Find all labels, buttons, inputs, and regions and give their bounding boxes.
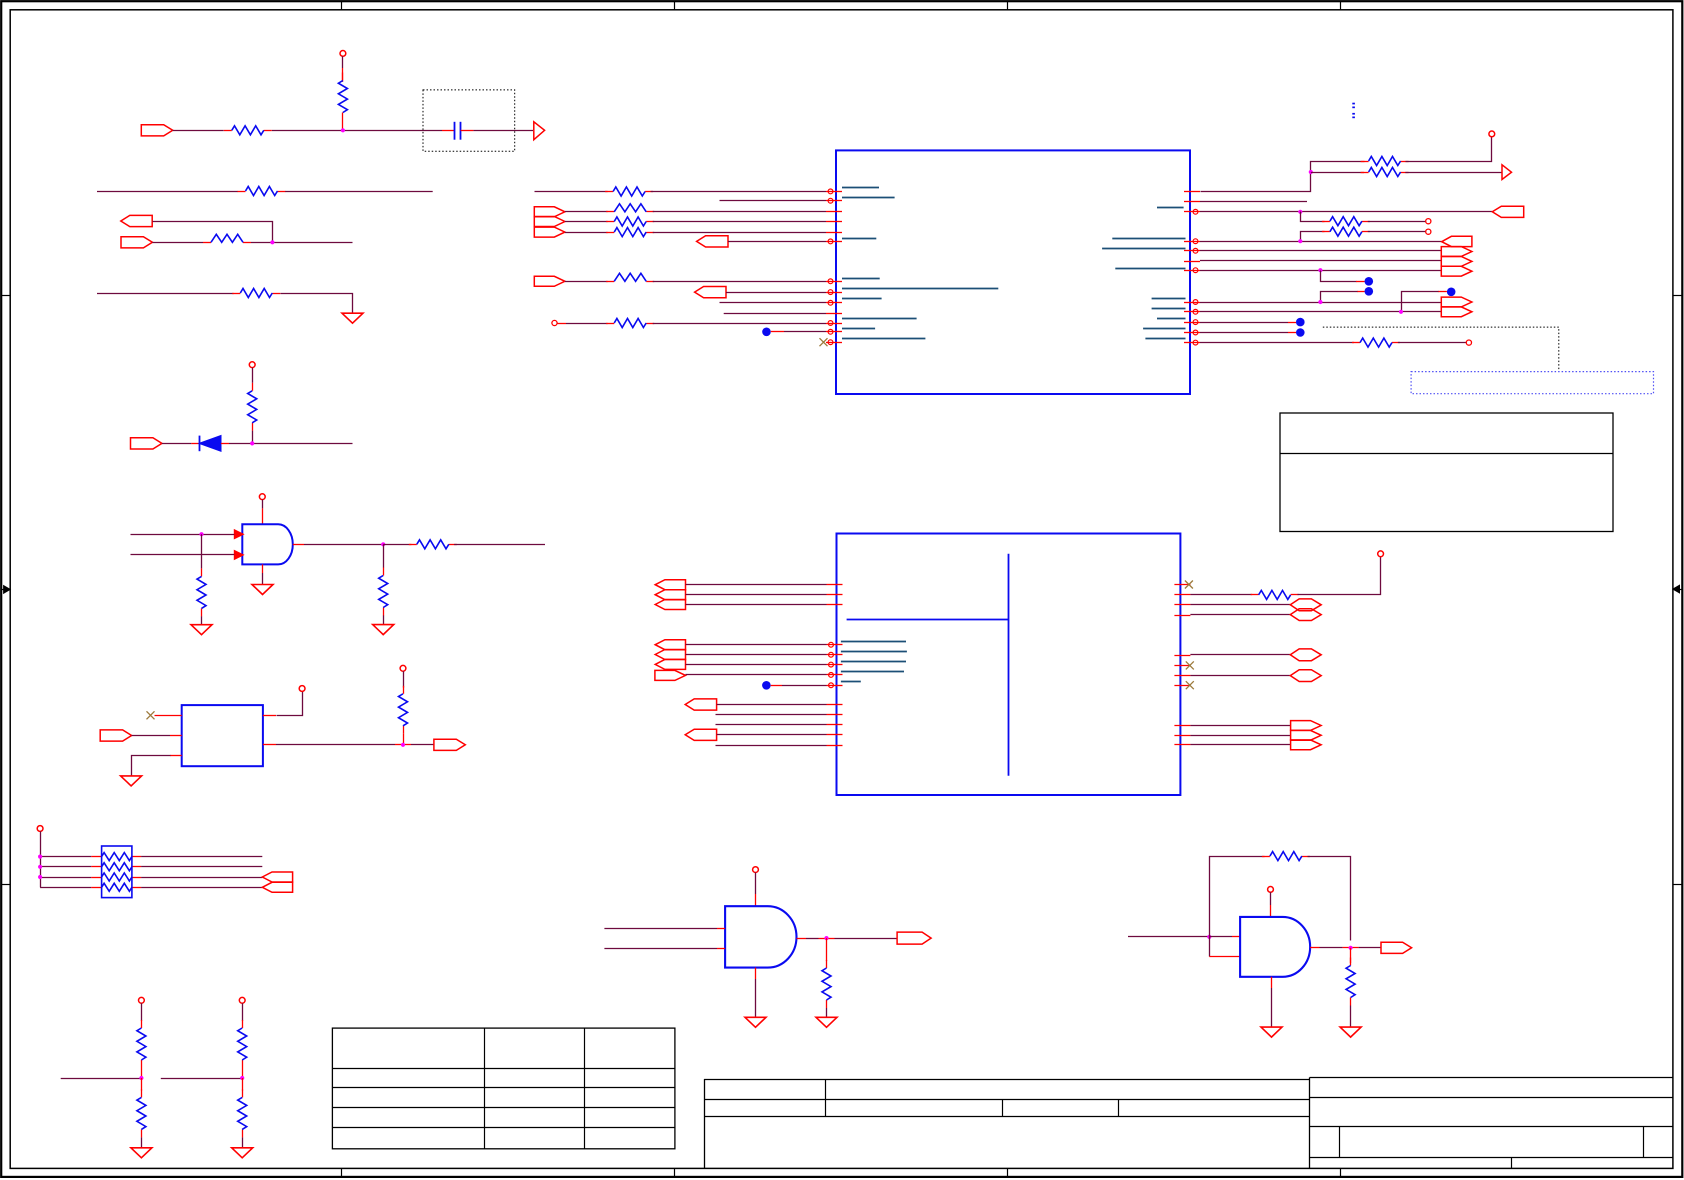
wire: [141, 1078, 143, 1091]
net tie H3: [1290, 649, 1321, 661]
connector J12: [1492, 206, 1523, 217]
wire: [686, 644, 827, 646]
wire: [1359, 947, 1381, 949]
pin name labels U1 right: [1157, 207, 1184, 209]
wire: [717, 704, 827, 706]
wire: [565, 281, 608, 283]
wire: [1301, 212, 1325, 222]
wire: [272, 130, 442, 132]
junction: [240, 1076, 244, 1080]
wire: [285, 191, 433, 193]
pin: [1184, 241, 1200, 243]
wire: [1190, 735, 1290, 737]
wire: [131, 554, 235, 556]
connector J13 pin 3: [1441, 257, 1472, 267]
wire: [132, 735, 170, 737]
wire: [170, 755, 182, 757]
wire: [1356, 281, 1365, 283]
wire: [565, 211, 608, 213]
ground G5: [121, 776, 142, 786]
wire: [342, 56, 344, 68]
junction: [401, 743, 405, 747]
junction: [1298, 239, 1302, 243]
wire: [40, 877, 91, 879]
connector J2: [121, 215, 152, 226]
connector J8 pin 2: [534, 217, 565, 227]
wire: [716, 714, 827, 716]
no-connect X5: [1186, 681, 1194, 689]
pin: [826, 191, 842, 193]
resistor R7: [201, 568, 203, 576]
revision table: [332, 1028, 675, 1149]
wire: [1321, 271, 1357, 282]
pin: [826, 232, 842, 234]
connector J14 pin 1: [1441, 297, 1472, 307]
connector J14 pin 2: [1441, 307, 1472, 317]
wire: [1288, 332, 1296, 334]
junction: [38, 865, 42, 869]
connector J15 pin 1: [655, 580, 685, 590]
pin: [1184, 211, 1200, 213]
wire: [1398, 342, 1466, 344]
wire: [716, 724, 827, 726]
wire: [771, 685, 782, 687]
pin: [826, 323, 842, 325]
wire: [383, 615, 385, 624]
wire: [1438, 291, 1447, 293]
wire: [1190, 604, 1290, 606]
resistor R9: [383, 568, 385, 576]
wire: [1200, 322, 1288, 324]
junction: [270, 240, 274, 244]
pin: [827, 745, 843, 747]
wire: [395, 744, 411, 746]
wire: [91, 866, 101, 868]
resistor R14: [242, 1089, 244, 1097]
wire: [1190, 654, 1290, 656]
wire: [717, 948, 725, 950]
wire: [728, 241, 826, 243]
ground G6: [131, 1148, 152, 1158]
wire: [173, 130, 224, 132]
wire: [797, 938, 807, 940]
and-gate U6B: [1240, 917, 1310, 977]
ground G1: [342, 313, 363, 323]
power symbol P11: [1378, 551, 1384, 557]
pin: [1174, 665, 1190, 667]
resistor R17: [1361, 172, 1369, 174]
pin: [826, 302, 842, 304]
wire: [403, 671, 405, 687]
pin: [1174, 744, 1190, 746]
wire: [141, 1068, 143, 1078]
no-connect X1: [147, 711, 155, 719]
pin: [826, 342, 842, 344]
pin: [1174, 655, 1190, 657]
connector J8 pin 1: [534, 207, 565, 217]
wire: [653, 323, 826, 325]
junction: [1399, 310, 1403, 314]
wire: [201, 616, 203, 624]
connector J5: [100, 730, 131, 741]
junction: [1318, 300, 1322, 304]
connector J4: [131, 438, 162, 449]
open pin: [1426, 219, 1431, 224]
wire: [835, 938, 898, 940]
wire: [653, 211, 826, 213]
wire: [1343, 947, 1359, 949]
pin: [1184, 322, 1200, 324]
wire: [132, 756, 171, 776]
connector J20: [897, 932, 931, 944]
wire: [1200, 342, 1354, 344]
wire: [755, 894, 757, 906]
power symbol P13: [1268, 887, 1274, 893]
wire: [1190, 594, 1252, 596]
wire: [1357, 291, 1365, 293]
wire: [1310, 947, 1319, 949]
resistor R3: [238, 191, 246, 193]
pin: [827, 724, 843, 726]
no-connect dot B1: [762, 328, 771, 337]
resistor R2: [606, 221, 614, 223]
resistor R15: [605, 191, 613, 193]
wire: [411, 744, 434, 746]
wire: [717, 734, 827, 736]
wire: [141, 1003, 143, 1021]
wire: [686, 594, 827, 596]
junction: [341, 128, 345, 132]
wire: [604, 948, 717, 950]
wire: [782, 685, 827, 687]
connector J15 pin 3: [655, 600, 685, 610]
wire: [557, 323, 566, 325]
wire: [1350, 948, 1352, 963]
resistor R13: [242, 1020, 244, 1028]
variant box (dotted): [423, 90, 515, 151]
wire: [1405, 172, 1501, 174]
pin arrow: [234, 550, 243, 559]
resistor R19: [1322, 231, 1330, 233]
pin: [1184, 332, 1200, 334]
wire: [281, 294, 353, 314]
pin: [1184, 270, 1200, 272]
ellipsis dots: [1352, 103, 1355, 105]
resistor R16: [1361, 161, 1369, 163]
wire: [755, 979, 757, 1017]
no-connect dot B2: [1365, 277, 1374, 286]
wire: [1288, 322, 1296, 324]
wire: [1200, 311, 1441, 313]
wire: [535, 191, 608, 193]
power symbol P6: [37, 826, 43, 832]
wire: [141, 866, 262, 868]
pin: [826, 241, 842, 243]
wire: [1201, 162, 1365, 192]
no-connect dot B7: [762, 681, 771, 690]
resistor network RN1: [102, 846, 132, 898]
dotted link: [1323, 327, 1559, 370]
and-gate U4A: [242, 524, 293, 564]
wire: [242, 1003, 244, 1021]
wire: [40, 887, 91, 889]
wire: [91, 887, 101, 889]
pin: [827, 714, 843, 716]
connector J9: [697, 236, 728, 247]
connector J16 pin 3: [655, 659, 685, 669]
connector J19 pin 2: [1291, 730, 1322, 740]
resistor R4: [606, 281, 614, 283]
wire: [263, 744, 276, 746]
wire: [40, 831, 42, 887]
junction: [199, 532, 203, 536]
wire: [726, 292, 826, 294]
wire: [242, 1068, 244, 1078]
wire: [61, 1078, 142, 1080]
ground G9: [745, 1017, 766, 1027]
wire: [403, 734, 405, 745]
power symbol P10: [1489, 131, 1495, 137]
wire: [1298, 557, 1381, 595]
connector J11: [695, 287, 726, 298]
wire: [1200, 241, 1442, 243]
wire: [201, 534, 203, 568]
IC U5: [182, 705, 263, 766]
wire: [784, 331, 826, 333]
wire: [1200, 270, 1441, 272]
pin: [1174, 675, 1190, 677]
wire: [1200, 302, 1441, 304]
wire: [1209, 936, 1232, 938]
pin: [827, 734, 843, 736]
pin: [826, 313, 842, 315]
wire: [1402, 292, 1439, 312]
open pin: [1466, 340, 1471, 345]
wire: [1271, 977, 1273, 988]
wire: [131, 534, 235, 536]
junction: [1309, 170, 1313, 174]
wire: [276, 744, 395, 746]
resistor R21: [1251, 594, 1259, 596]
pin name labels U1 left: [842, 187, 879, 189]
wire: [262, 564, 264, 573]
wire: [1190, 744, 1290, 746]
connector J18: [685, 729, 716, 740]
wire: [771, 331, 784, 333]
connector J19 pin 1: [1291, 721, 1322, 731]
resistor R3: [606, 232, 614, 234]
connector J13 pin 1: [1442, 236, 1472, 246]
power symbol P3: [259, 494, 265, 500]
pin: [1174, 685, 1190, 687]
pin: [1174, 594, 1190, 596]
wire: [1190, 725, 1290, 727]
connector J15 pin 2: [655, 590, 685, 600]
wire: [162, 443, 191, 445]
diode D1: [191, 443, 199, 445]
wire: [1368, 221, 1426, 223]
wire: [566, 323, 608, 325]
wire: [383, 544, 411, 546]
connector J3: [121, 237, 152, 248]
pin: [826, 221, 842, 223]
wire: [155, 715, 182, 717]
net tie H1: [1290, 599, 1321, 611]
pin: [1174, 615, 1190, 617]
pin: [827, 664, 843, 666]
no-connect X3: [1185, 581, 1193, 589]
wire: [1190, 675, 1290, 677]
internal bus line: [1008, 554, 1010, 776]
resistor R6: [252, 383, 254, 391]
junction: [38, 855, 42, 859]
off-page arrow: [534, 122, 545, 140]
connector J17: [685, 699, 716, 710]
connector J21: [1381, 942, 1412, 953]
wire: [40, 866, 91, 868]
power symbol P4: [299, 686, 305, 692]
pin: [827, 654, 843, 656]
connector J7 pin 2: [262, 882, 292, 892]
wire: [91, 856, 101, 858]
wire: [262, 573, 264, 585]
resistor R10: [403, 686, 405, 694]
resistor R22: [826, 960, 828, 968]
wire: [473, 130, 533, 132]
power symbol P2: [249, 362, 255, 368]
wire: [1311, 172, 1364, 174]
net label box (dotted): [1411, 372, 1653, 394]
power symbol P1: [340, 51, 346, 57]
wire: [454, 544, 545, 546]
wire: [383, 544, 385, 567]
wire: [755, 873, 757, 895]
wire: [1308, 857, 1351, 941]
wire: [97, 293, 234, 295]
connector J7: [262, 872, 292, 882]
pin: [826, 211, 842, 213]
resistor R24: [1350, 958, 1352, 966]
no-connect X4: [1186, 661, 1194, 669]
open pin: [1426, 229, 1431, 234]
junction: [381, 542, 385, 546]
wire: [1190, 614, 1290, 616]
resistor R1: [224, 130, 232, 132]
pin arrow: [234, 530, 243, 539]
and-gate U6A: [725, 906, 796, 967]
no-connect dot B4: [1447, 288, 1456, 297]
pin: [826, 200, 842, 202]
resistor R4: [203, 242, 211, 244]
wire: [141, 877, 262, 879]
wire: [1368, 231, 1426, 233]
connector J1: [141, 125, 172, 136]
wire: [686, 654, 827, 656]
ground G10: [1340, 1027, 1361, 1037]
pin: [826, 331, 842, 333]
wire: [1350, 1006, 1352, 1028]
pin: [827, 584, 843, 586]
resistor R5: [606, 323, 614, 325]
connector J13 pin 4: [1441, 266, 1472, 276]
wire: [686, 604, 827, 606]
no-connect dot B6: [1296, 328, 1305, 337]
ground G3: [373, 625, 394, 635]
wire: [342, 68, 344, 82]
pin: [1174, 735, 1190, 737]
wire: [653, 232, 826, 234]
resistor R18: [1322, 221, 1330, 223]
no-connect dot B3: [1365, 287, 1374, 296]
pin: [1184, 250, 1200, 252]
wire: [755, 968, 757, 979]
wire: [1128, 936, 1209, 938]
wire: [1200, 201, 1307, 203]
wire: [724, 313, 826, 315]
net tie H2: [1290, 609, 1321, 621]
junction: [824, 936, 828, 940]
wire: [604, 928, 717, 930]
title block: [704, 1079, 1309, 1081]
junction: [38, 875, 42, 879]
pin: [1184, 311, 1200, 313]
wire: [277, 692, 303, 716]
wire: [161, 1078, 242, 1080]
wire: [252, 368, 254, 383]
pin: [827, 685, 843, 687]
ground G4: [252, 585, 273, 595]
wire: [1271, 988, 1273, 1027]
wire: [40, 856, 91, 858]
junction: [1207, 935, 1211, 939]
no-connect X2: [820, 338, 828, 346]
wire: [251, 242, 353, 244]
resistor R20: [1352, 342, 1360, 344]
ground G2: [191, 625, 212, 635]
wire: [153, 222, 273, 243]
power symbol P12: [753, 867, 759, 873]
wire: [1209, 956, 1240, 958]
wire: [565, 221, 608, 223]
ground G7: [232, 1148, 253, 1158]
connector J16 pin 2: [655, 650, 685, 660]
resistor R12: [141, 1089, 143, 1097]
wire: [141, 1137, 143, 1147]
wire: [653, 221, 826, 223]
wire: [342, 121, 344, 131]
no-connect dot B5: [1296, 318, 1305, 327]
resistor R1: [606, 211, 614, 213]
net tie H4: [1290, 670, 1321, 682]
wire: [1270, 892, 1272, 905]
resistor R2: [342, 73, 344, 81]
wire: [170, 735, 182, 737]
connector J13 pin 2: [1441, 247, 1472, 257]
wire: [229, 443, 353, 445]
resistor R5: [232, 293, 240, 295]
power tap P9: [552, 320, 557, 325]
wire: [716, 745, 827, 747]
wire: [1200, 250, 1441, 252]
pin: [1174, 584, 1190, 586]
capacitor C1: [442, 130, 454, 132]
junction: [1318, 268, 1322, 272]
pin: [827, 644, 843, 646]
wire: [91, 877, 101, 879]
junction: [139, 1076, 143, 1080]
wire: [242, 1137, 244, 1147]
wire: [97, 191, 238, 193]
